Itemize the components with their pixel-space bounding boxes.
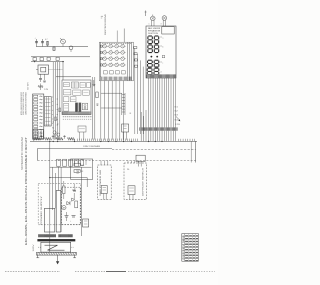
resistor R10 xyxy=(34,137,41,141)
wire rail stub xyxy=(51,167,53,210)
capacitor C11 xyxy=(52,135,55,139)
svg-text:24: 24 xyxy=(76,173,78,175)
relay K3 xyxy=(128,186,135,200)
wire ribbon 4 xyxy=(154,78,156,141)
transistor Q19 xyxy=(57,133,60,140)
wire vertical V4 xyxy=(59,62,61,140)
capacitor C10 xyxy=(40,135,43,139)
capacitor C12 xyxy=(63,135,66,139)
resistor R11 xyxy=(45,137,52,140)
display digit 7 xyxy=(147,68,152,74)
label heater xyxy=(175,124,181,126)
wire ribbon 5 xyxy=(157,78,159,141)
capacitor C2 xyxy=(41,39,44,47)
transistor Q16 xyxy=(119,62,126,67)
subtitle text SCHEMATIC DIAGRAM xyxy=(21,137,24,170)
resistor network RN1 xyxy=(122,124,129,140)
resistor R31 xyxy=(73,184,77,199)
digit select resistor RS4 xyxy=(134,65,137,67)
resistor R3 xyxy=(47,57,50,60)
svg-text:EKL-9098S, EKL-9510S DIGITAL P: EKL-9098S, EKL-9510S DIGITAL PROGRAMMER … xyxy=(24,137,28,245)
interlock switch box xyxy=(136,155,145,166)
grid select labels xyxy=(174,107,177,122)
resistor R5 xyxy=(38,84,43,91)
component marks on verticals xyxy=(53,108,61,128)
display digit 6 xyxy=(154,60,163,67)
wire ribbon 8 xyxy=(163,78,165,141)
digit select resistor RS3 xyxy=(134,59,137,61)
page number mark xyxy=(0,0,1,1)
capacitor C20 xyxy=(65,212,69,221)
digit select resistor RS2 xyxy=(134,53,137,55)
bus tick marks right xyxy=(179,139,195,142)
label power supply group xyxy=(41,195,43,225)
triac Q20 xyxy=(101,186,107,200)
resistor R30 xyxy=(63,181,65,199)
display module DS1 outline xyxy=(146,26,176,78)
wire vertical V2 xyxy=(54,62,56,140)
wire top rail xyxy=(36,46,88,48)
svg-text:3: 3 xyxy=(161,24,162,26)
transformer T1 core xyxy=(37,239,75,241)
capacitor C3 xyxy=(39,74,42,82)
display digit 3 xyxy=(148,45,152,53)
svg-text:G3: G3 xyxy=(174,115,177,117)
label lamp pins xyxy=(149,24,162,26)
svg-text:d: d xyxy=(160,71,161,73)
resistor R4 xyxy=(56,57,59,60)
label conn to keyboard xyxy=(83,145,100,148)
IC U1 left pin block xyxy=(64,104,69,112)
wire ribbon 7 xyxy=(161,78,163,141)
driver bank outline xyxy=(99,42,133,81)
resistor R12 xyxy=(56,137,63,140)
wire grid feed stub xyxy=(116,31,118,43)
keyboard connector box bottom dashed xyxy=(38,141,196,162)
wire ribbon 13 xyxy=(174,78,176,141)
wire ribbon left joins xyxy=(141,110,146,141)
transistor Q15 xyxy=(113,62,120,67)
filter box 2 xyxy=(56,191,61,233)
capacitor C6 xyxy=(92,80,95,86)
oscillator box X1 xyxy=(36,65,49,74)
transistor Q6 xyxy=(107,50,114,55)
note text line 4 xyxy=(28,81,30,90)
wire vertical V3 xyxy=(57,62,59,140)
bus wire horizontal xyxy=(30,140,197,142)
IC U1 internal divider block xyxy=(72,82,79,88)
wire stub top left xyxy=(145,11,147,17)
transistor Q4 xyxy=(119,43,126,48)
svg-text:DEFROST SWITCH: DEFROST SWITCH xyxy=(143,167,145,196)
wire right rail power xyxy=(80,167,82,236)
rectifier box dashed xyxy=(62,187,81,224)
parts table row text xyxy=(185,236,198,261)
wires bus to module M3 xyxy=(128,160,138,163)
transistor Q5 xyxy=(101,50,108,55)
IC U1 bottom pin row xyxy=(63,111,91,114)
transistor Q2 xyxy=(107,43,114,48)
wire scan line 7 xyxy=(123,81,125,140)
power group dashed outline xyxy=(38,184,81,225)
diode D11 xyxy=(72,198,75,201)
driver bank left rail xyxy=(100,43,102,78)
note text line 1 xyxy=(21,92,23,115)
svg-text:SCHEMATIC DIAGRAM: SCHEMATIC DIAGRAM xyxy=(21,137,24,170)
display digit 4 xyxy=(154,45,163,53)
svg-text:a: a xyxy=(162,37,163,39)
module M1 pin stubs xyxy=(75,160,87,165)
wire ribbon 10 xyxy=(168,78,170,141)
svg-text:CONN. TO KEYBOARD: CONN. TO KEYBOARD xyxy=(83,145,100,148)
varistor RV1 xyxy=(83,219,89,227)
driver bank bottom pin row xyxy=(101,77,132,81)
svg-text:c: c xyxy=(162,62,163,64)
diode D1 xyxy=(33,57,36,61)
svg-text:4.7: 4.7 xyxy=(45,39,48,41)
relay K1 contact xyxy=(82,103,87,110)
wire scan line 6 xyxy=(119,81,121,140)
transistor Q3 xyxy=(113,43,120,48)
IC U1 controller box xyxy=(62,80,91,115)
neon lamp N2 xyxy=(162,16,167,26)
wire vertical V6 xyxy=(94,77,96,140)
module box M3 dashed xyxy=(124,163,147,200)
wire left rail xyxy=(49,141,51,252)
wires bus to module M2 xyxy=(101,160,108,165)
arrow to heater xyxy=(176,117,180,122)
svg-text:2.2M: 2.2M xyxy=(44,89,48,91)
row 2 base resistor RB2 xyxy=(100,51,102,53)
IC U1 internal ram block xyxy=(64,97,77,102)
filter box xyxy=(44,208,54,232)
wire ribbon 6 xyxy=(159,78,161,141)
note text line 2 xyxy=(22,92,25,115)
wire scan line 5 xyxy=(115,81,117,140)
transistor Q18 xyxy=(53,131,56,140)
wire ribbon 9 xyxy=(166,78,168,141)
module box M2 dashed xyxy=(98,165,112,200)
wire ribbon 11 xyxy=(170,78,172,141)
parts table frame xyxy=(182,234,199,262)
diode D10 xyxy=(67,201,70,205)
keyboard switch column S1-S13 xyxy=(33,94,44,139)
svg-text:POWER SUPPLY: POWER SUPPLY xyxy=(41,195,43,225)
transistor Q8 xyxy=(119,50,126,55)
bus junction dots xyxy=(49,141,162,142)
resistor R2 xyxy=(53,47,55,52)
tick mark near label xyxy=(101,16,103,18)
wire scan line 4 xyxy=(111,81,113,140)
wires into power verticals xyxy=(56,167,62,232)
wire ribbon 12 xyxy=(172,78,174,141)
svg-text:CAPACITORS ARE IN MICROFARADS: CAPACITORS ARE IN MICROFARADS xyxy=(25,92,28,115)
svg-text:b: b xyxy=(162,47,163,49)
transistor Q11 xyxy=(113,56,120,61)
wire digit select 1 xyxy=(134,48,136,134)
wire horizontal y167 xyxy=(50,166,92,168)
transistor Q13 xyxy=(101,62,108,67)
transformer mount foot left xyxy=(36,255,39,258)
wire digit select 2 xyxy=(137,54,139,134)
transformer mount foot right xyxy=(73,255,76,258)
IC U1 internal block 3 xyxy=(80,83,90,88)
resistor R13 xyxy=(68,137,75,141)
label module M3 xyxy=(143,167,145,196)
resistor R1 xyxy=(45,39,49,47)
capacitor C4 xyxy=(42,74,46,87)
wire mid rail xyxy=(31,56,90,58)
note text line 3 xyxy=(25,92,28,115)
resistor R8 xyxy=(96,92,98,98)
wire digit select 3 xyxy=(139,60,141,134)
IC U1 pin label text row 2 xyxy=(63,118,92,120)
transistor Q2 xyxy=(69,46,73,52)
diode D2 xyxy=(40,58,43,61)
capacitor C21 xyxy=(70,216,76,223)
display part number text xyxy=(148,28,161,35)
wire node A rail xyxy=(31,61,64,62)
display pin connector row xyxy=(147,74,176,78)
transistor Q7 xyxy=(113,50,120,55)
resistor R21 xyxy=(74,170,84,174)
svg-text:G2: G2 xyxy=(174,111,177,113)
transformer T1 secondary winding 2 xyxy=(59,234,73,237)
background scan paper xyxy=(0,0,218,285)
transistor Q1 xyxy=(60,38,65,47)
wire vertical V1 xyxy=(52,62,54,140)
caption dotted line left xyxy=(5,271,60,273)
label 2.2M xyxy=(44,89,48,91)
junction dot rail xyxy=(49,177,50,178)
keyboard strip inner column xyxy=(44,97,51,127)
display digit 8 xyxy=(154,68,161,74)
ribbon connector band xyxy=(140,127,178,130)
neon lamp N1 xyxy=(151,15,156,27)
transformer T1 primary winding Z xyxy=(45,245,65,250)
keyboard connector box xyxy=(38,148,196,160)
label display drive board xyxy=(105,13,107,35)
resistor R20 xyxy=(74,163,85,167)
wire scan line 3 xyxy=(107,81,109,140)
svg-text:1: 1 xyxy=(149,24,150,26)
IC U1 pin number text row xyxy=(63,116,92,118)
transistor Q1 xyxy=(101,43,108,48)
module box M1 timer xyxy=(71,159,93,179)
transistor Q12 xyxy=(119,56,126,61)
transformer T1 mount plate xyxy=(36,252,76,255)
resistor ladder RN2 xyxy=(101,93,132,115)
digit select resistor RS1 xyxy=(134,47,137,49)
svg-text:COMPONENT TABLE: COMPONENT TABLE xyxy=(182,234,185,260)
IC U1 dark segment latch 2 xyxy=(79,103,82,112)
motor M symbol xyxy=(62,206,66,210)
IC U1 internal latch block xyxy=(64,90,71,95)
strip side marks xyxy=(52,97,58,128)
driver bank right rails xyxy=(128,43,132,81)
row 4 base resistor RB4 xyxy=(100,64,102,66)
capacitor C1 xyxy=(35,38,39,47)
wire scan line 2 xyxy=(104,81,106,140)
driver bank label row xyxy=(104,71,126,74)
svg-text:DIGITRON DRIVE: DIGITRON DRIVE xyxy=(105,13,107,35)
IC U1 internal rom block xyxy=(73,90,89,95)
display digit 2 xyxy=(154,36,163,44)
display digit 1 xyxy=(148,36,152,44)
capacitor C8 below IC xyxy=(78,126,86,140)
keyboard strip bottom contacts xyxy=(33,130,44,139)
svg-text:50 WV: 50 WV xyxy=(28,81,30,90)
bank top label row xyxy=(102,43,131,45)
svg-text:M: M xyxy=(63,208,65,210)
wire IC top rail xyxy=(56,76,91,78)
label 120V xyxy=(33,243,35,251)
transformer T1 primary box xyxy=(38,242,74,252)
resistor R32 xyxy=(75,201,78,208)
wire digit select 4 xyxy=(142,67,144,134)
IC U1 dark segment latch 1 xyxy=(75,103,78,112)
transformer T1 secondary winding 1 xyxy=(39,234,56,237)
row 1 base resistor RB1 xyxy=(100,45,102,47)
wire ribbon 3 xyxy=(152,78,154,141)
parts table side label xyxy=(182,234,185,260)
transistor Q14 xyxy=(107,62,114,67)
capacitor C7 xyxy=(96,104,98,105)
wire scan line 1 xyxy=(100,81,102,140)
label 24V xyxy=(76,170,80,175)
transistor Q9 xyxy=(101,56,108,61)
svg-text:G1: G1 xyxy=(174,107,177,109)
power plug arrow xyxy=(56,255,59,264)
title text EKL-9098S EKL-9510S DIGITAL PROGRAMMER CIRCUIT xyxy=(24,137,28,245)
svg-text:DIGITRON: DIGITRON xyxy=(148,33,159,35)
display digit 5 xyxy=(148,60,153,67)
junction node A xyxy=(34,61,35,62)
wire horizontal y177 xyxy=(50,178,87,187)
display aux box xyxy=(162,27,174,34)
wire ribbon 1 xyxy=(148,78,150,141)
svg-text:G4: G4 xyxy=(174,120,177,122)
transistor Q10 xyxy=(107,56,114,61)
wire ribbon 2 xyxy=(150,78,152,141)
bus tick marks left xyxy=(78,139,138,142)
IC U1 internal reset block xyxy=(64,83,70,87)
wire vertical V5 xyxy=(92,77,94,140)
colon dots xyxy=(151,55,165,57)
connector pads row xyxy=(57,159,84,166)
row 3 base resistor RB3 xyxy=(100,58,102,60)
caption text center xyxy=(75,270,215,272)
wire dashed osc to node xyxy=(49,62,64,80)
label 24 xyxy=(127,169,130,171)
label module M2 xyxy=(99,170,102,196)
wire anode feed xyxy=(123,29,125,43)
